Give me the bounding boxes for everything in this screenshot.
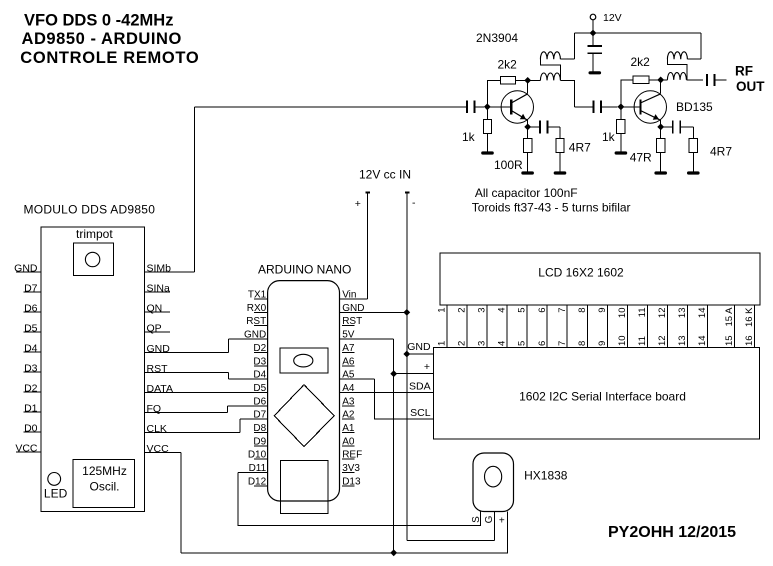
wire 2k2 stage2 feedback — [621, 80, 633, 107]
usb connector box — [280, 348, 328, 373]
svg-text:CLK: CLK — [147, 423, 167, 435]
wire Q2 collector junction to T2 — [661, 79, 668, 81]
svg-text:8: 8 — [577, 308, 588, 313]
transformer T2 top coil — [667, 52, 687, 59]
wire Q2 emitter — [660, 120, 662, 127]
svg-text:LCD 16X2 1602: LCD 16X2 1602 — [538, 265, 624, 279]
svg-text:11: 11 — [637, 308, 648, 318]
node Q2 emitter junction — [657, 124, 664, 131]
pin LCD 14 line — [707, 305, 709, 347]
ground 4R7 stage 1 — [555, 171, 564, 174]
wire DDS RST to Arduino D4 — [227, 372, 229, 379]
wire T2 series link — [667, 59, 686, 80]
node Q2 base junction — [618, 103, 625, 110]
pin LCD 1 line — [446, 305, 448, 347]
svg-text:+: + — [499, 515, 505, 526]
svg-text:12: 12 — [657, 335, 668, 346]
wire T1 series link — [540, 59, 560, 80]
svg-text:11: 11 — [637, 336, 648, 346]
svg-text:QP: QP — [147, 323, 162, 335]
wire rail to transformer T1 — [574, 33, 576, 59]
wire Q1 emitter — [527, 120, 529, 127]
svg-text:G: G — [484, 515, 495, 523]
svg-text:4: 4 — [497, 341, 508, 346]
trimpot wiper circle — [85, 252, 99, 266]
wire 12V rail — [575, 32, 701, 34]
transistor Q1 2N3904 — [487, 91, 533, 123]
emitter arrow Q2 — [653, 114, 659, 120]
svg-text:SCL: SCL — [410, 407, 431, 419]
wire T1 top coil to rail drop — [560, 58, 574, 60]
capacitor interstage coupling — [575, 106, 594, 108]
wire rail to transformer T2 — [700, 33, 702, 59]
svg-text:D5: D5 — [24, 323, 38, 335]
ground 1k stage 1 — [483, 151, 492, 154]
svg-text:D6: D6 — [24, 303, 38, 315]
svg-text:100R: 100R — [494, 158, 523, 172]
svg-text:D4: D4 — [24, 343, 38, 355]
wire DDS FQ to Arduino D6 — [226, 406, 228, 413]
svg-text:1k: 1k — [602, 130, 616, 144]
svg-text:7: 7 — [557, 341, 568, 346]
svg-text:2: 2 — [457, 308, 468, 313]
resistor 2k2 stage 2 — [633, 76, 649, 84]
wire 5V down — [393, 339, 395, 553]
pin LCD 11 line — [646, 305, 648, 347]
wire A5 to SCL — [375, 379, 434, 419]
HX1838 lens ellipse — [485, 466, 502, 487]
wire T2 top coil to rail drop — [687, 58, 701, 60]
svg-text:D7: D7 — [24, 283, 38, 295]
svg-text:2k2: 2k2 — [498, 57, 518, 71]
svg-text:FQ: FQ — [147, 403, 162, 415]
svg-text:GND: GND — [407, 341, 431, 353]
oscillator box 125MHz — [73, 460, 134, 508]
pin LCD 3 line — [486, 305, 488, 347]
wire minus rail — [406, 193, 408, 541]
svg-text:6: 6 — [537, 308, 548, 313]
node Q1 collector junction — [524, 77, 531, 84]
node 5V to I2C plus — [390, 370, 397, 377]
transistor Q2 BD135 — [621, 91, 667, 123]
wire 12V terminal to rail — [592, 20, 594, 33]
emitter arrow Q1 — [520, 114, 526, 120]
pin LCD 10 line — [626, 305, 628, 347]
wire 2k2 stage2 right — [649, 79, 661, 81]
transformer T1 bottom coil — [540, 73, 560, 80]
svg-text:4R7: 4R7 — [710, 144, 732, 158]
svg-text:8: 8 — [577, 341, 588, 346]
svg-text:VCC: VCC — [147, 443, 170, 455]
svg-text:16: 16 — [744, 335, 755, 346]
module box HX1838 IR receiver — [473, 453, 514, 512]
svg-text:15: 15 — [724, 335, 735, 346]
node Q1 base junction — [484, 103, 491, 110]
pin LCD 5 line — [526, 305, 528, 347]
wire minus rail to HX1838 G — [407, 539, 495, 541]
wire T1 out — [560, 80, 574, 106]
wire SIMb to amp input — [193, 107, 195, 272]
node Q1 emitter junction — [524, 124, 531, 131]
node Q2 collector junction — [657, 77, 664, 84]
svg-text:47R: 47R — [630, 151, 652, 165]
pin LCD 13 line — [687, 305, 689, 347]
ground 4R7 stage 2 — [689, 171, 698, 174]
svg-text:GND: GND — [14, 263, 38, 275]
svg-text:125MHz: 125MHz — [82, 464, 127, 478]
capacitor Q1 emitter bypass — [528, 126, 540, 128]
svg-text:14: 14 — [697, 308, 708, 319]
svg-text:1602 I2C Serial Interface boar: 1602 I2C Serial Interface board — [519, 390, 686, 404]
svg-text:12: 12 — [657, 308, 668, 319]
svg-text:OUT: OUT — [736, 79, 765, 94]
module box DDS AD9850 — [41, 227, 145, 512]
capacitor RF output coupling — [706, 74, 708, 86]
capacitor input coupling — [466, 100, 468, 113]
svg-text:QN: QN — [147, 303, 163, 315]
svg-text:3: 3 — [477, 308, 488, 313]
svg-text:RST: RST — [147, 363, 169, 375]
terminal 12V plus — [365, 192, 370, 194]
pin LCD 2 line — [466, 305, 468, 347]
svg-text:Toroids ft37-43 - 5 turns bifi: Toroids ft37-43 - 5 turns bifilar — [472, 201, 631, 215]
svg-text:VFO DDS 0 -42MHz: VFO DDS 0 -42MHz — [24, 11, 173, 29]
icsp connector box — [281, 460, 329, 513]
node Arduino GND to minus rail — [403, 309, 410, 316]
svg-text:10: 10 — [617, 308, 628, 319]
svg-text:All capacitor 100nF: All capacitor 100nF — [475, 186, 578, 200]
wire DDS CLK to Arduino D7/D8 — [239, 419, 241, 432]
wire I2C plus branch — [394, 373, 434, 375]
svg-text:-: - — [412, 197, 416, 209]
resistor 100R — [527, 127, 529, 139]
wire plus terminal to Vin — [367, 193, 369, 300]
svg-text:9: 9 — [597, 308, 608, 313]
pin LCD 4 line — [506, 305, 508, 347]
svg-text:PY2OHH 12/2015: PY2OHH 12/2015 — [608, 524, 736, 541]
svg-text:4R7: 4R7 — [569, 141, 591, 155]
svg-text:MODULO DDS AD9850: MODULO DDS AD9850 — [24, 202, 156, 216]
svg-text:SIMb: SIMb — [147, 263, 172, 275]
ground 12V filter — [590, 71, 599, 74]
wire DDS VCC down — [180, 452, 182, 553]
wire 2k2 feedback left — [487, 80, 500, 106]
svg-text:D3: D3 — [24, 363, 38, 375]
svg-text:SINa: SINa — [147, 283, 171, 295]
svg-text:13: 13 — [677, 308, 688, 319]
svg-text:LED: LED — [44, 487, 68, 501]
svg-text:2: 2 — [457, 341, 468, 346]
pin HX1838 G — [494, 512, 496, 541]
pin HX1838 S — [480, 512, 482, 526]
resistor 47R — [660, 127, 662, 139]
svg-text:DATA: DATA — [147, 383, 173, 395]
svg-text:9: 9 — [597, 341, 608, 346]
svg-text:4: 4 — [497, 308, 508, 313]
svg-text:+: + — [424, 361, 430, 373]
wire DDS GND to Arduino GND — [227, 339, 229, 352]
wire VCC rail bottom — [181, 552, 394, 554]
svg-text:1: 1 — [437, 308, 448, 313]
svg-text:CONTROLE REMOTO: CONTROLE REMOTO — [20, 49, 199, 67]
svg-text:1k: 1k — [462, 130, 476, 144]
svg-text:HX1838: HX1838 — [524, 469, 568, 483]
pin LCD 7 line — [566, 305, 568, 347]
svg-text:trimpot: trimpot — [76, 227, 113, 241]
resistor 4R7 stage 1 — [559, 127, 561, 139]
svg-text:16 K: 16 K — [744, 307, 755, 327]
wire Q1 collector junction to T1 — [528, 79, 541, 81]
12V supply terminal — [590, 14, 596, 20]
node 5V to VCC rail — [390, 549, 397, 556]
resistor 2k2 stage 1 — [501, 77, 516, 85]
node 12V rail junction — [590, 30, 597, 37]
wire DDS SIMb to amplifier input — [194, 106, 467, 108]
transformer T2 bottom coil — [667, 73, 686, 80]
svg-text:12V cc IN: 12V cc IN — [359, 168, 411, 182]
svg-text:6: 6 — [537, 341, 548, 346]
svg-text:14: 14 — [697, 335, 708, 346]
pin LCD 12 line — [666, 305, 668, 347]
capacitor 12V filter — [588, 45, 602, 47]
ground 100R — [523, 171, 532, 174]
svg-text:GND: GND — [147, 343, 171, 355]
resistor 1k stage 1 — [486, 107, 488, 120]
svg-text:7: 7 — [557, 308, 568, 313]
svg-text:10: 10 — [617, 335, 628, 346]
pin LCD 6 line — [546, 305, 548, 347]
pin LCD 16 line — [753, 305, 755, 347]
pin LCD 8 line — [586, 305, 588, 347]
wire Q1 collector — [527, 80, 529, 93]
svg-text:D2: D2 — [24, 383, 38, 395]
svg-text:15 A: 15 A — [724, 307, 735, 327]
terminal 12V minus — [405, 192, 410, 194]
transformer T1 top coil — [540, 52, 560, 59]
svg-text:AD9850 - ARDUINO: AD9850 - ARDUINO — [22, 30, 182, 48]
capacitor Q2 emitter bypass — [661, 126, 673, 128]
wire Q2 collector — [660, 80, 662, 94]
pin HX1838 plus — [394, 512, 508, 553]
svg-text:VCC: VCC — [15, 443, 38, 455]
resistor 4R7 stage 2 — [692, 127, 694, 139]
svg-text:Oscil.: Oscil. — [90, 479, 120, 493]
wire T2 out — [686, 79, 703, 81]
svg-text:12V: 12V — [603, 12, 622, 24]
module box LCD 16X2 1602 — [440, 253, 760, 305]
svg-text:ARDUINO NANO: ARDUINO NANO — [258, 263, 351, 277]
svg-text:1: 1 — [437, 341, 448, 346]
wire 2k2 right to collector — [516, 79, 528, 81]
svg-text:5: 5 — [517, 341, 528, 346]
module box Arduino Nano body — [268, 281, 340, 501]
svg-text:13: 13 — [677, 335, 688, 346]
ground 1k stage 2 — [616, 151, 625, 154]
node I2C GND to minus rail — [403, 351, 410, 358]
svg-text:2k2: 2k2 — [631, 55, 651, 69]
ground 47R — [656, 171, 665, 174]
mcu chip diamond — [274, 385, 334, 447]
wire D11 to HX1838 S — [238, 473, 481, 526]
pin LCD 9 line — [606, 305, 608, 347]
trimpot box — [73, 243, 113, 275]
usb connector ellipse — [294, 354, 313, 367]
module box 1602 I2C Serial Interface board — [433, 347, 759, 439]
svg-text:D1: D1 — [24, 403, 38, 415]
svg-text:S: S — [471, 516, 482, 523]
svg-text:3: 3 — [477, 341, 488, 346]
svg-text:2N3904: 2N3904 — [476, 31, 518, 45]
svg-text:BD135: BD135 — [676, 100, 713, 114]
svg-text:5: 5 — [517, 308, 528, 313]
LED circle — [48, 473, 61, 486]
svg-text:D0: D0 — [24, 423, 38, 435]
resistor 1k stage 2 — [620, 107, 622, 120]
pin LCD 15 line — [734, 305, 736, 347]
svg-text:+: + — [355, 198, 361, 210]
svg-text:SDA: SDA — [409, 381, 431, 393]
svg-text:RF: RF — [735, 64, 753, 79]
wire RF out stub — [715, 79, 727, 81]
